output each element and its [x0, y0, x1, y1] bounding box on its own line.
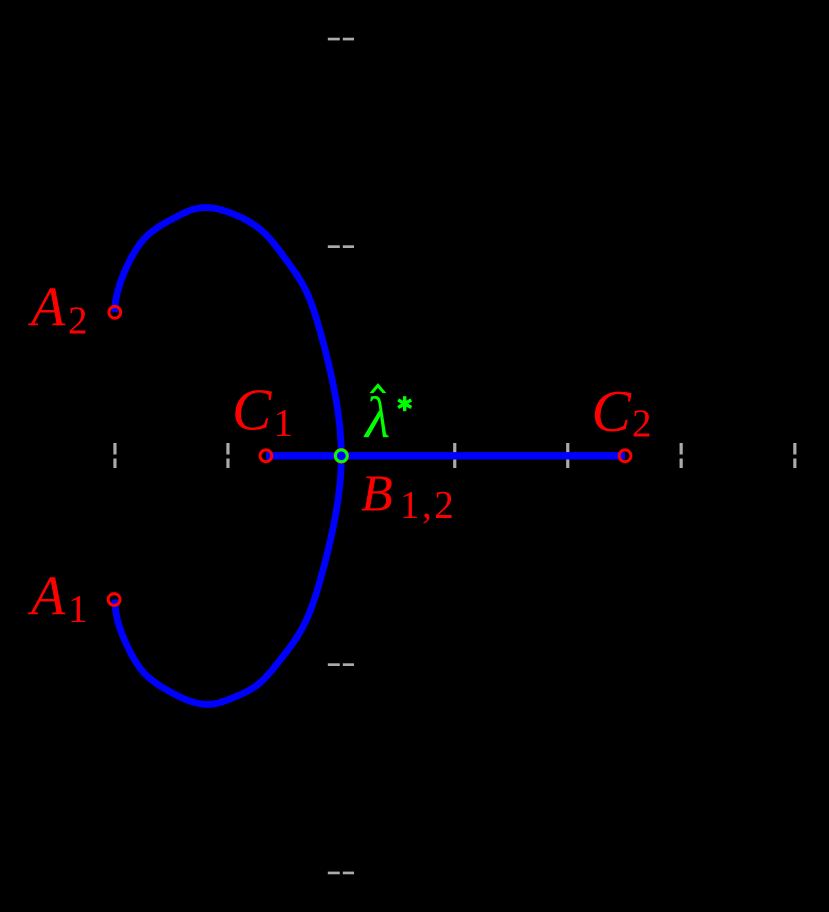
svg-text:C: C — [232, 377, 272, 443]
svg-text:A: A — [27, 277, 66, 339]
svg-text:λ: λ — [363, 385, 390, 450]
svg-text:2: 2 — [632, 402, 652, 445]
svg-text:1,2: 1,2 — [400, 484, 456, 527]
svg-text:1: 1 — [68, 588, 88, 631]
svg-text:1: 1 — [274, 402, 294, 445]
svg-text:A: A — [27, 566, 66, 628]
svg-text:2: 2 — [68, 299, 88, 342]
svg-text:B: B — [361, 466, 393, 523]
svg-text:C: C — [592, 378, 632, 444]
